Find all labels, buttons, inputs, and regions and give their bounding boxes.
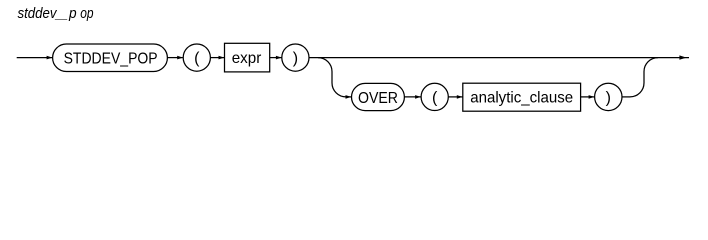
svg-text:(: ( [194,50,200,67]
svg-text:): ) [293,50,298,67]
svg-text:analytic_clause: analytic_clause [470,90,573,107]
svg-text:stddev_pop: stddev_pop [18,5,94,22]
svg-text:(: ( [432,89,438,106]
svg-text:expr: expr [232,50,262,67]
svg-text:STDDEV_POP: STDDEV_POP [64,51,158,68]
svg-text:): ) [606,89,611,106]
svg-text:OVER: OVER [358,90,398,107]
